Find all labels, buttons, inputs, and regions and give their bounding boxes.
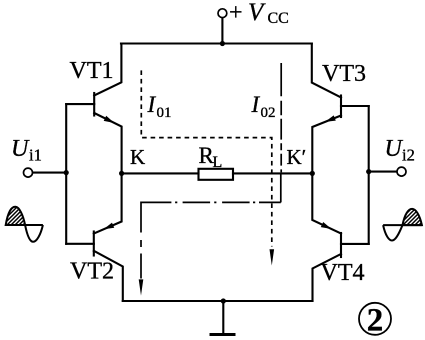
svg-text:VT2: VT2 [70, 259, 114, 285]
svg-text:K: K [130, 145, 145, 169]
svg-text:I: I [251, 92, 261, 117]
svg-text:i1: i1 [29, 146, 42, 165]
svg-text:L: L [213, 154, 223, 171]
svg-text:01: 01 [157, 105, 172, 121]
svg-text:+: + [229, 0, 243, 26]
svg-text:VT3: VT3 [322, 61, 366, 87]
svg-text:VT4: VT4 [321, 260, 365, 286]
svg-text:02: 02 [261, 105, 276, 121]
svg-text:2: 2 [367, 303, 384, 339]
svg-text:U: U [11, 136, 30, 162]
svg-text:K′: K′ [287, 145, 307, 169]
svg-text:I: I [147, 92, 157, 117]
svg-text:i2: i2 [402, 146, 415, 165]
svg-text:VT1: VT1 [70, 58, 114, 84]
svg-text:U: U [385, 136, 404, 162]
svg-text:CC: CC [268, 10, 289, 27]
